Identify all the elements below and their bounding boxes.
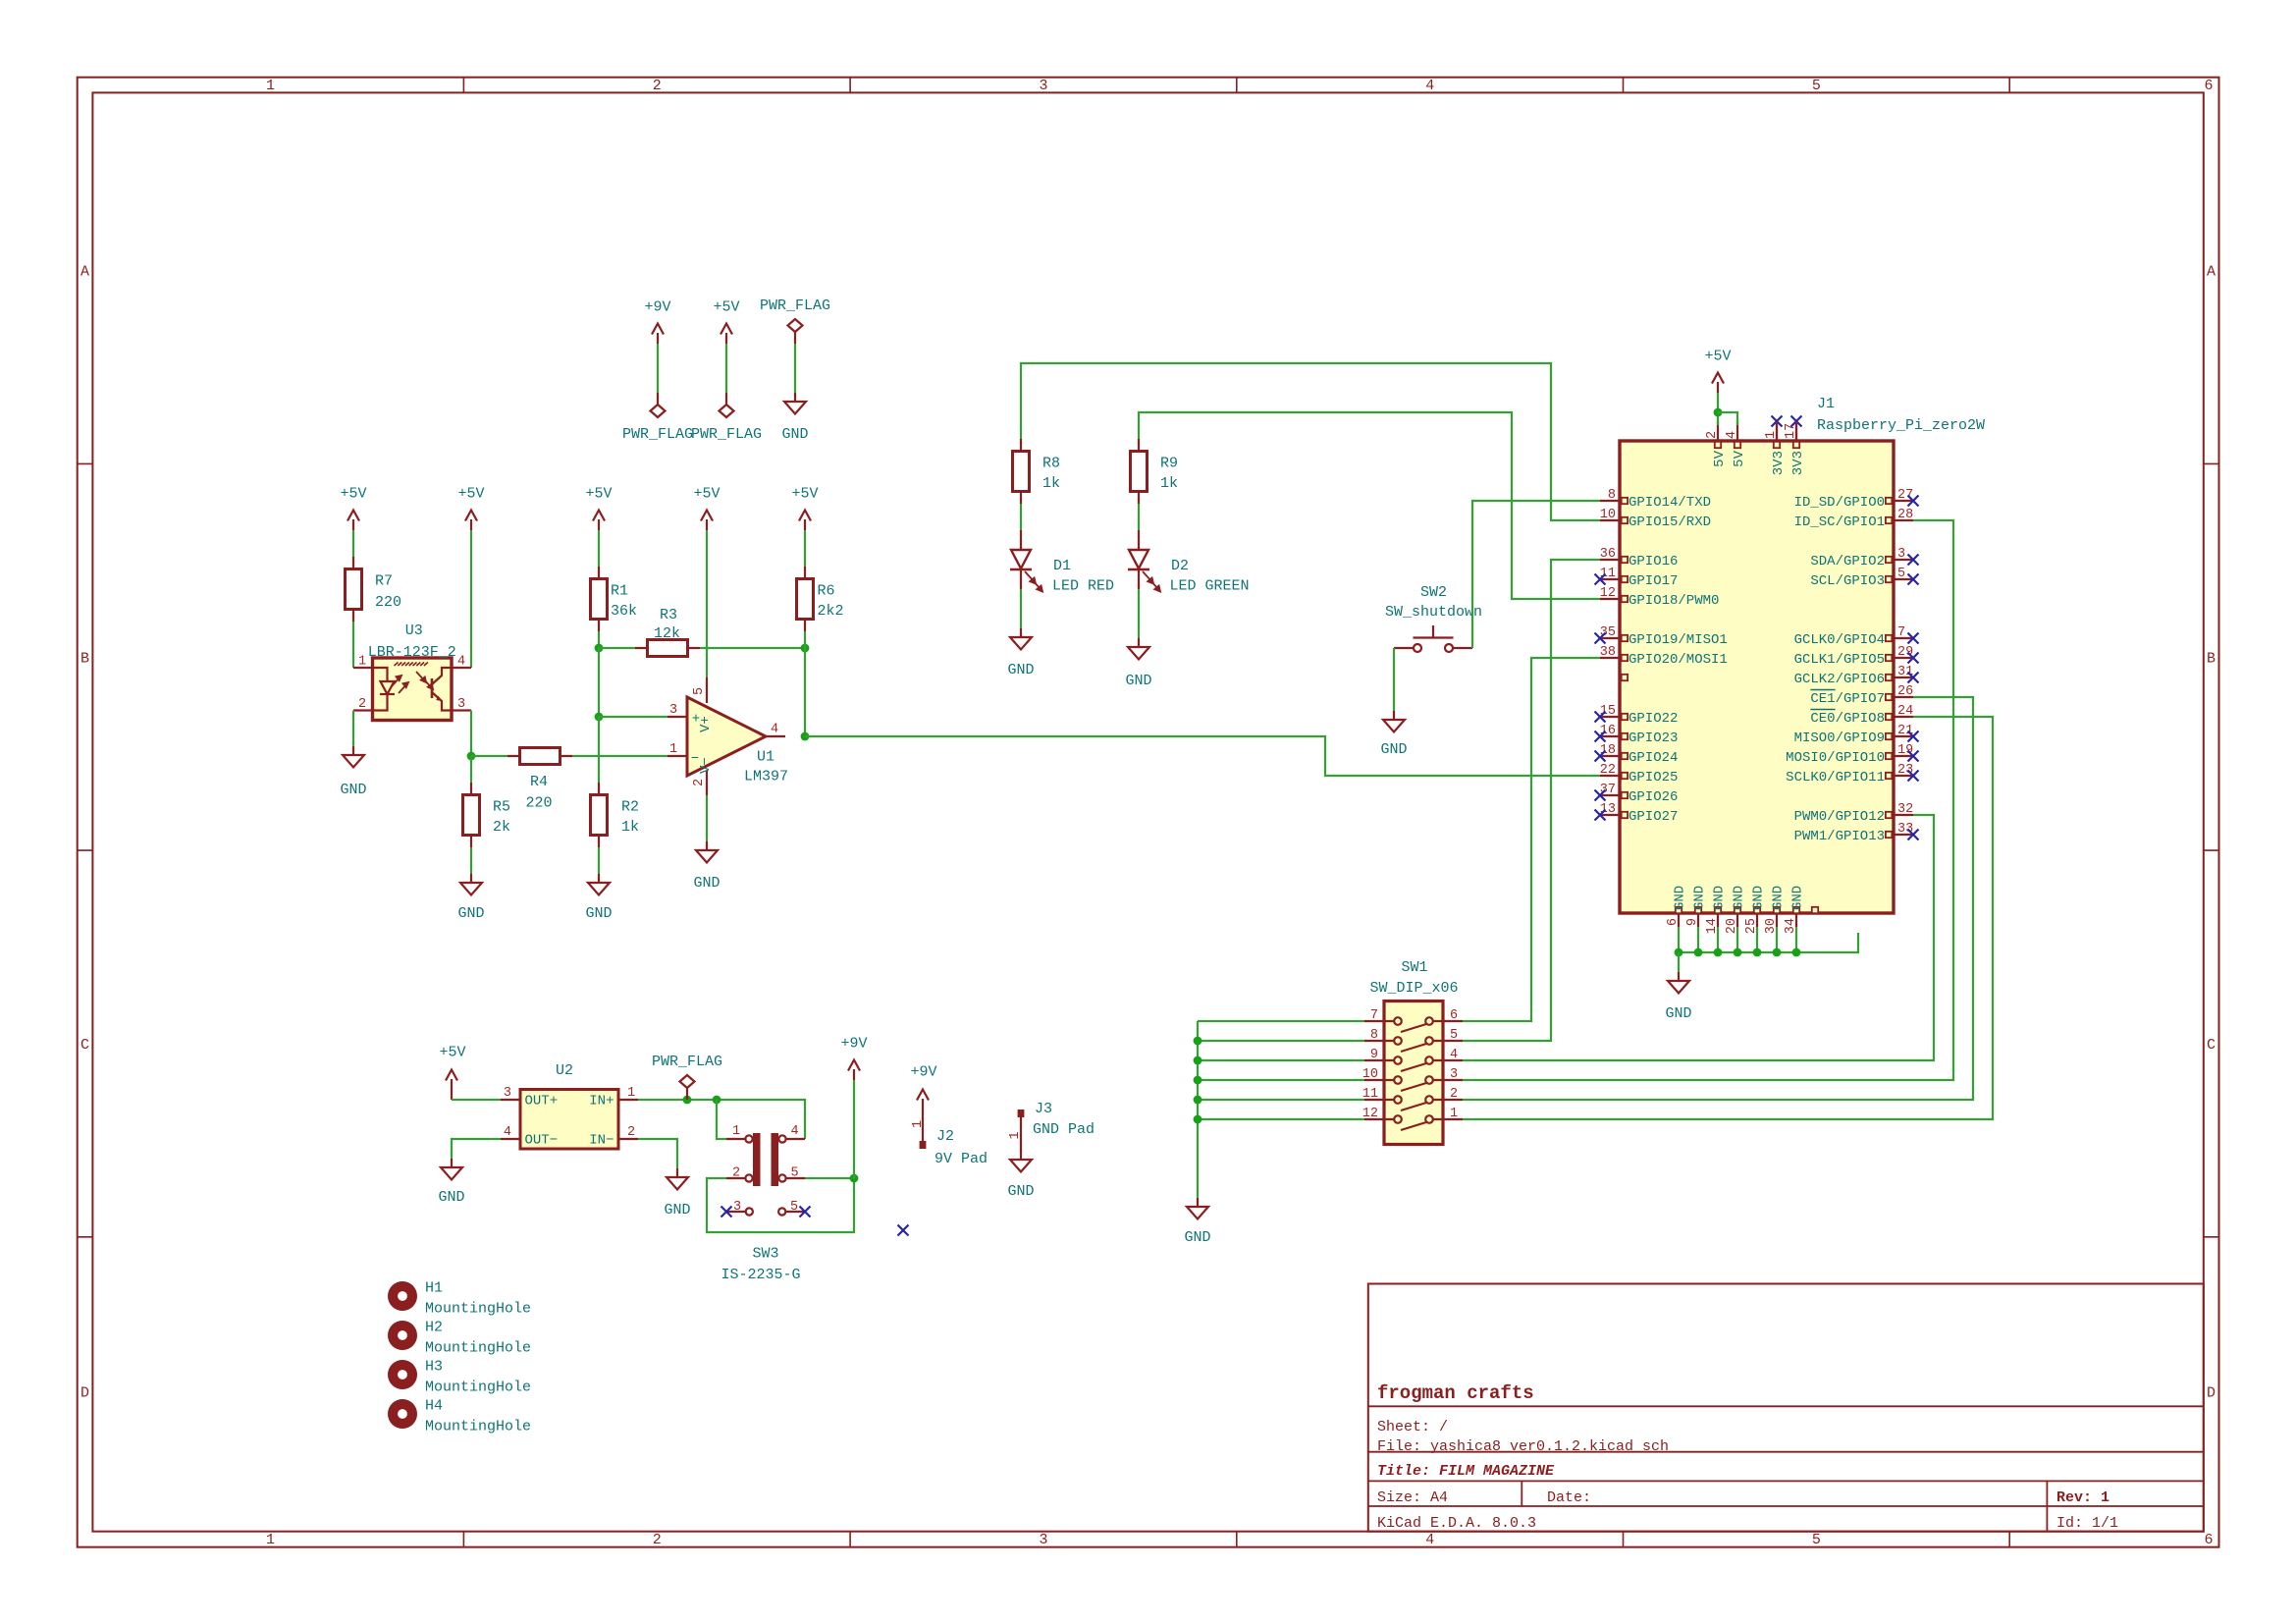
svg-text:220: 220	[375, 594, 401, 611]
svg-text:3: 3	[504, 1086, 511, 1101]
svg-text:5: 5	[692, 687, 707, 695]
wire node A down to node C	[598, 648, 600, 717]
J1 right pin 3 SDA/GPIO2	[1894, 559, 1913, 561]
U2 pin 3 OUT+	[501, 1099, 520, 1101]
J1 right pin 31 GCLK2/GPIO6	[1894, 677, 1913, 678]
svg-text:U1: U1	[757, 749, 774, 766]
no-connect at J1 pin 35	[1595, 633, 1606, 644]
resistor R2	[591, 783, 608, 847]
junction at SW3 pin1 tap	[713, 1096, 721, 1105]
wire node A to R3	[599, 647, 635, 649]
J1 top pin 2 5V	[1717, 421, 1719, 441]
ground symbol under SW2	[1383, 711, 1405, 732]
J1 top pin 1 3V3	[1776, 421, 1778, 441]
svg-text:3: 3	[457, 697, 465, 712]
svg-text:2: 2	[627, 1125, 635, 1140]
svg-text:9V Pad: 9V Pad	[934, 1151, 988, 1167]
wire +5V to U3 pin4	[470, 530, 472, 668]
svg-text:MountingHole: MountingHole	[425, 1340, 531, 1357]
DIP switch SW1 body	[1384, 1001, 1443, 1145]
J1 right pin 29 GCLK1/GPIO5	[1894, 657, 1913, 659]
svg-text:MountingHole: MountingHole	[425, 1380, 531, 1396]
U3 pin 4	[452, 667, 471, 669]
svg-text:IN−: IN−	[589, 1133, 614, 1149]
svg-text:GPIO27: GPIO27	[1629, 809, 1678, 825]
regulator U2 body	[520, 1090, 618, 1150]
svg-text:GND: GND	[1007, 1183, 1034, 1200]
svg-text:12k: 12k	[654, 625, 680, 642]
wire R5 to GND	[470, 847, 472, 874]
mounting hole H4	[388, 1399, 417, 1429]
svg-text:3: 3	[669, 703, 677, 718]
SW3 pin 5 lower (nc)	[778, 1208, 805, 1215]
mounting hole H1	[388, 1281, 417, 1311]
svg-text:GND: GND	[438, 1189, 464, 1206]
svg-text:8: 8	[1370, 1028, 1378, 1043]
svg-text:H2: H2	[425, 1320, 443, 1336]
stray no-connect marker	[898, 1225, 909, 1236]
svg-text:1k: 1k	[1042, 475, 1060, 492]
svg-text:GCLK0/GPIO4: GCLK0/GPIO4	[1794, 632, 1885, 648]
svg-text:OUT+: OUT+	[525, 1094, 559, 1110]
U3 pin 3	[452, 709, 471, 711]
svg-text:33: 33	[1897, 822, 1913, 837]
svg-text:Raspberry_Pi_zero2W: Raspberry_Pi_zero2W	[1817, 417, 1985, 434]
svg-text:MISO0/GPIO9: MISO0/GPIO9	[1794, 731, 1885, 746]
resistor R7	[346, 557, 362, 622]
wire +5V to J1 pins 2/4	[1717, 393, 1719, 425]
J1 left pin 11 GPIO17	[1600, 578, 1620, 580]
svg-text:R4: R4	[530, 774, 548, 790]
wire IN+ to SW3 pin4	[638, 1100, 805, 1139]
J1 left pin 15 GPIO22	[1600, 716, 1620, 718]
resistor R3	[635, 640, 700, 657]
svg-text:5: 5	[1450, 1028, 1458, 1043]
wire +9V to PWR_FLAG	[657, 344, 659, 393]
svg-text:GND: GND	[340, 782, 366, 798]
U1 pin 4 (output)	[766, 735, 785, 737]
wire SW1 pin2 to CE1/GPIO7	[1463, 697, 1973, 1100]
SW1 switch element pins 8/5	[1364, 1037, 1463, 1052]
U3 phototransistor	[432, 668, 452, 711]
svg-text:21: 21	[1897, 724, 1913, 738]
svg-text:LED RED: LED RED	[1052, 578, 1114, 595]
svg-text:2: 2	[653, 78, 662, 94]
svg-text:D2: D2	[1171, 558, 1189, 574]
svg-text:5: 5	[790, 1200, 798, 1215]
svg-text:11: 11	[1600, 567, 1616, 581]
junction SW1 bus y=1120	[1194, 1096, 1202, 1105]
wire node to R4	[471, 755, 507, 757]
ground symbol under D1	[1010, 628, 1032, 650]
svg-text:12: 12	[1600, 586, 1616, 601]
junction SW1 bus y=1080	[1194, 1056, 1202, 1065]
junction GND bus x=1770	[1734, 948, 1742, 957]
svg-text:SW1: SW1	[1401, 959, 1427, 976]
junction node C (op-amp +input)	[595, 713, 604, 722]
svg-text:GND: GND	[1184, 1229, 1210, 1246]
svg-text:2: 2	[1450, 1087, 1458, 1102]
junction GND bus x=1810	[1773, 948, 1782, 957]
wire node down to R5	[470, 756, 472, 783]
svg-text:+9V: +9V	[644, 299, 670, 316]
svg-text:PWM1/GPIO13: PWM1/GPIO13	[1794, 829, 1885, 844]
svg-text:MountingHole: MountingHole	[425, 1419, 531, 1435]
svg-text:GND: GND	[664, 1202, 690, 1218]
J1 bottom pin 34 GND	[1795, 913, 1797, 927]
J1 bottom pin 6 GND	[1678, 913, 1680, 927]
J1 right pin 33 PWM1/GPIO13	[1894, 834, 1913, 836]
J1 right pin 19 MOSI0/GPIO10	[1894, 755, 1913, 757]
svg-text:4: 4	[504, 1125, 511, 1140]
wire SW1 pin4 to PWM0/GPIO12	[1463, 815, 1934, 1060]
svg-text:10: 10	[1600, 508, 1616, 522]
svg-text:ID_SC/GPIO1: ID_SC/GPIO1	[1794, 514, 1885, 530]
svg-text:12: 12	[1362, 1107, 1378, 1121]
power symbol +5V at U2 OUT+	[446, 1070, 457, 1101]
svg-text:IN+: IN+	[589, 1094, 614, 1110]
svg-text:1: 1	[266, 1532, 275, 1548]
junction at PWR_FLAG tap	[683, 1096, 692, 1105]
no-connect at J1 pin 15	[1595, 712, 1606, 723]
wire D2 to GND	[1138, 589, 1140, 638]
svg-text:GND: GND	[1665, 1005, 1691, 1022]
svg-text:R7: R7	[375, 573, 393, 590]
svg-text:GCLK2/GPIO6: GCLK2/GPIO6	[1794, 672, 1885, 687]
U3 pin 2	[353, 709, 373, 711]
svg-text:5: 5	[1897, 567, 1905, 581]
svg-text:+5V: +5V	[439, 1045, 465, 1061]
wire +5V to R6	[804, 530, 806, 567]
svg-text:+9V: +9V	[840, 1036, 867, 1053]
op-amp U1 body	[687, 697, 766, 776]
junction node B (R3/R6)	[801, 644, 810, 653]
svg-text:GND: GND	[1751, 886, 1767, 910]
resistor R6	[797, 567, 814, 631]
svg-text:35: 35	[1600, 625, 1616, 640]
power symbol +5V above U3 pin4	[465, 511, 477, 531]
svg-text:+5V: +5V	[791, 486, 818, 503]
svg-text:37: 37	[1600, 783, 1616, 797]
no-connect at J1 pin 21	[1908, 731, 1919, 742]
J1 right pin 24 CE0/GPIO8	[1894, 716, 1913, 718]
svg-text:9: 9	[1370, 1048, 1378, 1062]
LED D2	[1128, 530, 1149, 589]
SW1 left bus wires	[1198, 1020, 1364, 1022]
svg-text:29: 29	[1897, 645, 1913, 660]
power flag PWR_FLAG above GND	[788, 319, 803, 344]
wire SW3 pin2 loop to +9V node	[707, 1178, 854, 1232]
junction at J1 5V node	[1714, 408, 1723, 417]
wire SW1 pin6 to GPIO20	[1463, 658, 1600, 1021]
svg-text:SCLK0/GPIO11: SCLK0/GPIO11	[1786, 770, 1885, 785]
wire R1 to node A	[598, 631, 600, 648]
wire SW3 pin5 to +9V node	[805, 1177, 854, 1179]
U1 pin 3 (+)	[667, 716, 687, 718]
svg-text:R9: R9	[1160, 456, 1178, 472]
svg-text:6: 6	[1666, 918, 1681, 926]
svg-text:6: 6	[1450, 1008, 1458, 1023]
wire D1 to GND	[1020, 589, 1022, 628]
push button SW2	[1394, 625, 1472, 652]
wire U3 pin2 to GND	[352, 711, 354, 747]
wire SW1 pin3 to ID_SC/GPIO1	[1463, 520, 1953, 1080]
svg-text:1k: 1k	[1160, 475, 1178, 492]
no-connect at J1 pin 7	[1908, 633, 1919, 644]
svg-text:H4: H4	[425, 1398, 443, 1415]
svg-text:26: 26	[1897, 684, 1913, 699]
J1 right pin 26 CE1/GPIO7	[1894, 696, 1913, 698]
J1 right pin 23 SCLK0/GPIO11	[1894, 775, 1913, 777]
SW3 pin 5	[778, 1174, 805, 1181]
svg-text:B: B	[2207, 650, 2216, 667]
resistor R8	[1013, 439, 1030, 504]
J1 top pin stubs wires	[1776, 421, 1778, 441]
svg-text:A: A	[80, 264, 89, 281]
J1 left pin 38 GPIO20/MOSI1	[1600, 657, 1620, 659]
J1 right pin 5 SCL/GPIO3	[1894, 578, 1913, 580]
svg-text:13: 13	[1600, 802, 1616, 817]
J1 bottom pin 9 GND	[1697, 913, 1699, 927]
power symbol +9V above SW3	[848, 1060, 860, 1081]
svg-text:4: 4	[457, 655, 465, 670]
wire OUT+ to +5V	[452, 1099, 501, 1101]
svg-text:B: B	[80, 650, 89, 667]
svg-text:1: 1	[627, 1086, 635, 1101]
junction SW1 bus y=1060	[1194, 1037, 1202, 1046]
svg-text:SDA/GPIO2: SDA/GPIO2	[1810, 554, 1885, 569]
svg-text:3: 3	[1039, 78, 1047, 94]
svg-text:GND: GND	[1673, 886, 1688, 910]
J1 right pin 28 ID_SC/GPIO1	[1894, 519, 1913, 521]
svg-text:R5: R5	[493, 799, 510, 816]
U3 pin 1	[353, 667, 373, 669]
wire U1 pin2 to GND	[706, 795, 708, 841]
wire R7 to U3 pin1	[352, 622, 354, 668]
svg-text:SW2: SW2	[1420, 584, 1447, 601]
svg-text:SW_DIP_x06: SW_DIP_x06	[1369, 980, 1458, 997]
wire R2 to GND	[598, 847, 600, 874]
svg-text:R8: R8	[1042, 456, 1060, 472]
svg-text:U2: U2	[556, 1062, 573, 1079]
power symbol +5V above U1 pin5	[701, 511, 713, 531]
svg-text:2k2: 2k2	[818, 603, 844, 620]
svg-text:4: 4	[1725, 431, 1739, 439]
wire R6 to node B	[804, 631, 806, 648]
svg-text:H1: H1	[425, 1280, 443, 1297]
wire +5V to U1 pin5	[706, 530, 708, 677]
wire OUT- to GND	[452, 1139, 501, 1159]
ground symbol under PWR_FLAG	[784, 393, 806, 414]
wire +5V to R7	[352, 530, 354, 557]
svg-text:1: 1	[266, 78, 275, 94]
svg-text:2: 2	[1705, 431, 1720, 439]
svg-text:GCLK1/GPIO5: GCLK1/GPIO5	[1794, 652, 1885, 668]
svg-text:GND: GND	[781, 426, 808, 443]
svg-text:6: 6	[2204, 78, 2213, 94]
wire R9 top to GPIO18	[1139, 412, 1600, 599]
power symbol +5V above J1	[1712, 373, 1724, 394]
svg-text:IS-2235-G: IS-2235-G	[721, 1267, 800, 1283]
svg-text:16: 16	[1600, 724, 1616, 738]
resistor R9	[1131, 439, 1148, 504]
no-connect at SW3 pin 5 lower	[800, 1207, 811, 1218]
J1 top pin 17 3V3	[1795, 421, 1797, 441]
no-connect at SW3 pin 3	[721, 1207, 732, 1218]
svg-text:4: 4	[1425, 78, 1434, 94]
svg-text:GPIO18/PWM0: GPIO18/PWM0	[1629, 593, 1719, 609]
svg-text:H3: H3	[425, 1359, 443, 1376]
svg-text:J3: J3	[1035, 1101, 1052, 1117]
U2 pin 2 IN-	[618, 1138, 638, 1140]
optocoupler U3 body	[373, 658, 453, 721]
power symbol +9V at J2	[917, 1090, 929, 1110]
svg-text:D: D	[80, 1385, 89, 1402]
svg-text:D1: D1	[1053, 558, 1071, 574]
svg-text:GND: GND	[1790, 886, 1806, 910]
wire SW1 pin1 to CE0/GPIO8	[1463, 717, 1993, 1119]
svg-text:+5V: +5V	[457, 486, 484, 503]
svg-text:GPIO14/TXD: GPIO14/TXD	[1629, 495, 1711, 511]
U2 pin 4 OUT-	[501, 1138, 520, 1140]
resistor R1	[591, 567, 608, 631]
wire IN- to GND	[638, 1139, 677, 1168]
wire node C down to R2	[598, 717, 600, 783]
svg-text:38: 38	[1600, 645, 1616, 660]
svg-text:PWR_FLAG: PWR_FLAG	[760, 298, 830, 314]
svg-text:4: 4	[771, 723, 778, 737]
svg-text:File: yashica8_ver0.1.2.kicad_: File: yashica8_ver0.1.2.kicad_sch	[1377, 1438, 1669, 1455]
junction at +9V node	[850, 1174, 859, 1183]
title block box	[1368, 1284, 2204, 1532]
svg-text:5: 5	[1812, 1532, 1821, 1548]
wire R4 to op-amp pin1	[572, 755, 667, 757]
svg-text:2: 2	[692, 779, 707, 786]
wire +5V to PWR_FLAG	[725, 344, 727, 393]
wire node B down to output node	[804, 648, 806, 736]
wire U3 pin3 down to node	[470, 711, 472, 757]
no-connect at J1 pin 19	[1908, 751, 1919, 762]
svg-text:3: 3	[1039, 1532, 1047, 1548]
mounting hole H2	[388, 1321, 417, 1350]
J1 bottom GND bus wires	[1678, 927, 1680, 952]
SW1 switch element pins 12/1	[1364, 1115, 1463, 1130]
power symbol +5V above R6	[799, 511, 811, 531]
svg-text:KiCad E.D.A. 8.0.3: KiCad E.D.A. 8.0.3	[1377, 1515, 1536, 1532]
wire SW2 to GPIO14	[1472, 501, 1600, 648]
SW1 switch element pins 9/4	[1364, 1056, 1463, 1071]
svg-text:MOSI0/GPIO10: MOSI0/GPIO10	[1786, 750, 1885, 766]
connector J2 pin 1	[922, 1110, 924, 1141]
svg-text:24: 24	[1897, 704, 1913, 719]
J1 bottom unnumbered pin notch	[1812, 907, 1818, 913]
U1 pin 5 (V+)	[706, 677, 708, 703]
wire tap down to SW3 pin1	[717, 1100, 726, 1139]
svg-text:Date:: Date:	[1547, 1489, 1591, 1506]
svg-text:GND Pad: GND Pad	[1033, 1121, 1095, 1138]
svg-text:R2: R2	[621, 799, 639, 816]
svg-text:18: 18	[1600, 743, 1616, 758]
svg-text:4: 4	[790, 1124, 798, 1139]
J1 right pin 27 ID_SD/GPIO0	[1894, 500, 1913, 502]
SW3 pin 4	[778, 1135, 805, 1142]
svg-text:10: 10	[1362, 1067, 1378, 1082]
U2 pin 1 IN+	[618, 1099, 638, 1101]
SW1 switch element pins 11/2	[1364, 1096, 1463, 1110]
slide switch SW3 contact bars	[753, 1133, 761, 1186]
U3 coupling arrows	[392, 672, 433, 693]
svg-text:LM397: LM397	[744, 769, 788, 785]
J1 left pin 22 GPIO25	[1600, 775, 1620, 777]
U1 pin 2 (V-)	[706, 771, 708, 795]
ground symbol at U2 IN-	[667, 1168, 688, 1190]
junction GND bus x=1730	[1694, 948, 1703, 957]
no-connect at J1 pin 13	[1595, 810, 1606, 821]
svg-text:31: 31	[1897, 665, 1913, 679]
ground symbol under J3	[1010, 1151, 1032, 1172]
svg-text:+9V: +9V	[910, 1064, 936, 1081]
svg-text:SCL/GPIO3: SCL/GPIO3	[1810, 573, 1885, 589]
power symbol +5V above R1	[593, 511, 605, 531]
svg-text:27: 27	[1897, 488, 1913, 503]
no-connect at J1 pin 33	[1908, 830, 1919, 840]
svg-text:GPIO23: GPIO23	[1629, 731, 1678, 746]
svg-text:1: 1	[911, 1120, 926, 1128]
wire R8 top to GPIO15	[1021, 363, 1600, 520]
power flag PWR_FLAG near U2	[680, 1075, 695, 1100]
svg-text:frogman crafts: frogman crafts	[1377, 1382, 1534, 1404]
wire R8 to D1	[1020, 504, 1022, 530]
J1 right pin 21 MISO0/GPIO9	[1894, 735, 1913, 737]
U3 light emission hatch bar	[395, 663, 428, 667]
svg-text:1: 1	[1450, 1107, 1458, 1121]
svg-text:GPIO22: GPIO22	[1629, 711, 1678, 727]
svg-text:19: 19	[1897, 743, 1913, 758]
svg-text:ID_SD/GPIO0: ID_SD/GPIO0	[1794, 495, 1885, 511]
mounting hole H3	[388, 1360, 417, 1389]
no-connect at J1 pin 18	[1595, 751, 1606, 762]
svg-text:+5V: +5V	[340, 486, 366, 503]
svg-text:6: 6	[2204, 1532, 2213, 1548]
wire op-amp output to GPIO25	[805, 736, 1600, 776]
svg-text:1: 1	[732, 1124, 740, 1139]
svg-text:Size: A4: Size: A4	[1377, 1489, 1448, 1506]
ground symbol under U3 pin2	[343, 746, 364, 768]
svg-text:5: 5	[790, 1166, 798, 1181]
ground symbol under D2	[1128, 638, 1149, 660]
svg-text:CE0/GPIO8: CE0/GPIO8	[1810, 711, 1885, 727]
no-connect at J1 pin 27	[1908, 496, 1919, 507]
ground symbol under R5	[460, 874, 482, 895]
SW3 pin 2	[726, 1174, 753, 1181]
svg-text:5V: 5V	[1732, 450, 1747, 466]
svg-text:GPIO19/MISO1: GPIO19/MISO1	[1629, 632, 1728, 648]
svg-text:3: 3	[1450, 1067, 1458, 1082]
svg-text:SW_shutdown: SW_shutdown	[1385, 604, 1482, 621]
LED D1	[1010, 530, 1032, 589]
no-connect at J1 pin 37	[1595, 790, 1606, 801]
J1 right pin 32 PWM0/GPIO12	[1894, 814, 1913, 816]
no-connect at J1 pin 16	[1595, 731, 1606, 742]
wire branch to J1 pin4	[1718, 412, 1737, 425]
svg-text:2: 2	[653, 1532, 662, 1548]
power flag PWR_FLAG under +9V	[651, 393, 666, 417]
resistor R4	[507, 748, 572, 765]
J1 right pin 7 GCLK0/GPIO4	[1894, 637, 1913, 639]
J1 left pin 8 GPIO14/TXD	[1600, 500, 1620, 502]
svg-text:2: 2	[358, 697, 366, 712]
wire R3 to node B	[700, 647, 805, 649]
